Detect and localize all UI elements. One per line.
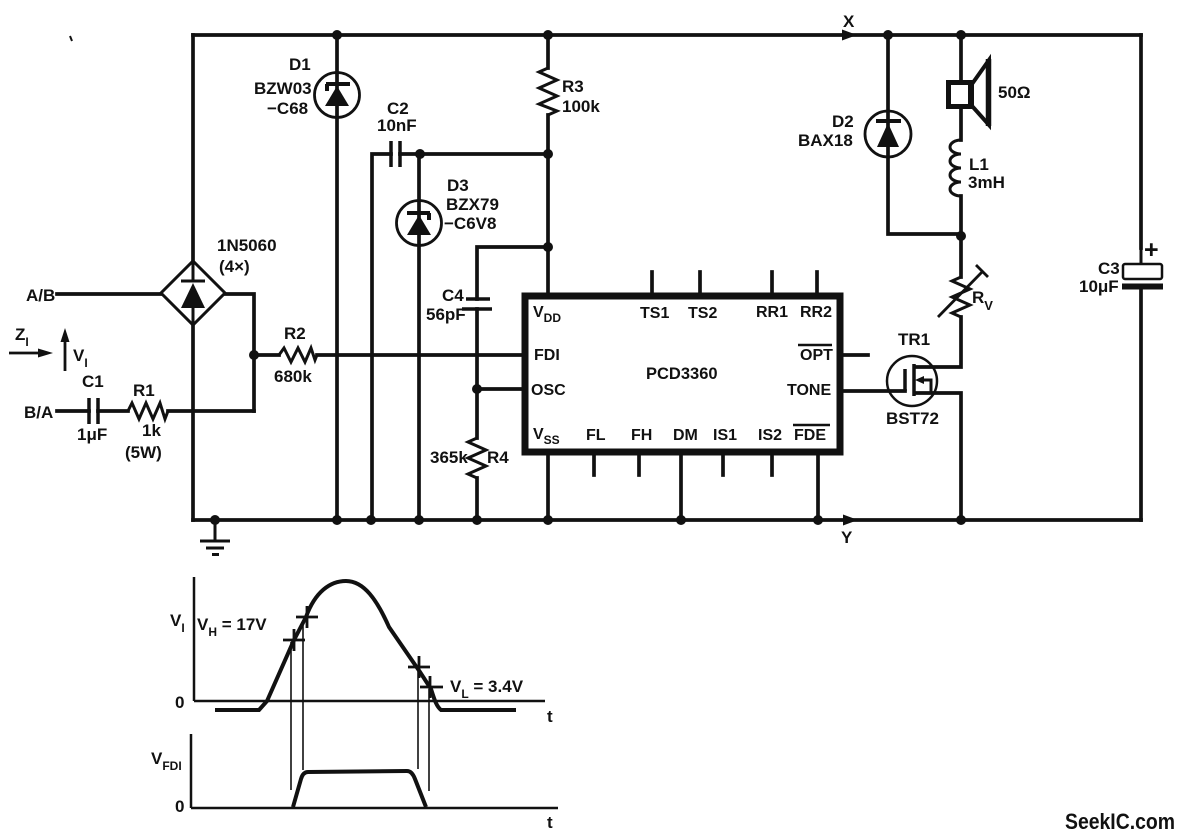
svg-text:VI: VI (73, 346, 88, 370)
svg-text:IS2: IS2 (758, 427, 782, 444)
wire OSC pin (477, 387, 523, 391)
wire source to rail (915, 393, 961, 520)
svg-text:TONE: TONE (787, 382, 831, 399)
wire speaker top (959, 35, 963, 80)
capacitor C4 (462, 299, 492, 309)
svg-text:100k: 100k (562, 97, 600, 116)
wire R2 to FDI pin (317, 353, 523, 357)
svg-text:TS2: TS2 (688, 305, 717, 322)
svg-text:D1: D1 (289, 55, 311, 74)
wire D3 branch (417, 154, 421, 520)
pin stub OPT (842, 353, 868, 357)
svg-text:ZI: ZI (15, 325, 29, 349)
wire FDE pin to rail (816, 454, 820, 520)
svg-text:(4×): (4×) (219, 257, 250, 276)
guide lines (291, 620, 429, 791)
svg-text:10nF: 10nF (377, 116, 417, 135)
wire speaker to L1 (959, 109, 963, 140)
IC pin labels (531, 304, 833, 447)
svg-text:RV: RV (972, 288, 993, 313)
svg-text:RR2: RR2 (800, 304, 832, 321)
svg-text:RR1: RR1 (756, 304, 788, 321)
pin stub RR2 (815, 272, 819, 294)
wire A/B input (57, 292, 161, 296)
FDE overline (793, 424, 830, 427)
svg-text:IS1: IS1 (713, 427, 737, 444)
wire right rail lower (1139, 289, 1143, 520)
node X arrow (842, 30, 857, 41)
svg-text:B/A: B/A (24, 403, 53, 422)
svg-text:365k: 365k (430, 448, 468, 467)
svg-text:VI: VI (170, 611, 185, 635)
waveform VFDI axes (191, 734, 558, 808)
svg-text:(5W): (5W) (125, 443, 162, 462)
capacitor C3 (1123, 264, 1162, 279)
speck top-left (70, 36, 72, 41)
cross mark 4 (420, 676, 443, 698)
wire C2 left leg (372, 154, 391, 520)
svg-text:DM: DM (673, 427, 698, 444)
svg-text:A/B: A/B (26, 286, 55, 305)
wire top rail (193, 33, 1141, 37)
wire R2 left (254, 353, 279, 357)
svg-text:−C6V8: −C6V8 (444, 214, 496, 233)
waveform VFDI pulse (293, 771, 426, 807)
wire bottom rail (193, 518, 1141, 522)
svg-text:PCD3360: PCD3360 (646, 365, 718, 383)
waveform VI curve (215, 581, 516, 710)
diode D2 BAX18 (865, 111, 911, 157)
wire TONE to gate (842, 389, 905, 393)
svg-text:VL = 3.4V: VL = 3.4V (450, 677, 524, 701)
svg-text:BAX18: BAX18 (798, 131, 853, 150)
svg-text:+: + (1144, 236, 1159, 264)
wire C2 right to R3 line (400, 152, 548, 156)
svg-text:FH: FH (631, 427, 652, 444)
svg-text:50Ω: 50Ω (998, 83, 1031, 102)
wire VSS pin to rail (546, 454, 550, 520)
cross mark 2 (296, 606, 318, 628)
svg-text:Y: Y (841, 528, 853, 547)
V_I arrow (64, 340, 67, 371)
wire RV to drain corner (915, 317, 961, 367)
waveform labels (151, 611, 553, 832)
svg-text:680k: 680k (274, 367, 312, 386)
resistor R2 (279, 348, 317, 362)
wire right rail upper (1139, 35, 1143, 248)
svg-text:R3: R3 (562, 77, 584, 96)
variable resistor RV (952, 277, 970, 317)
speaker 50ohm (949, 60, 990, 125)
pin stub IS2 (770, 454, 774, 475)
svg-text:1k: 1k (142, 421, 161, 440)
svg-text:BZX79: BZX79 (446, 195, 499, 214)
cross mark 3 (408, 656, 430, 678)
svg-text:56pF: 56pF (426, 305, 466, 324)
wire B/A input to C1 (57, 409, 89, 413)
OPT overline (798, 344, 832, 347)
cross mark 1 (283, 629, 305, 651)
svg-text:C1: C1 (82, 372, 104, 391)
pin stub TS2 (698, 272, 702, 294)
resistor R3 (539, 68, 557, 115)
wire C1 to R1 (98, 409, 128, 413)
svg-text:R4: R4 (487, 448, 509, 467)
svg-text:FL: FL (586, 427, 606, 444)
svg-text:OSC: OSC (531, 382, 566, 399)
inductor L1 (950, 140, 961, 196)
svg-text:1N5060: 1N5060 (217, 236, 277, 255)
wire bridge right vertex down (225, 294, 254, 411)
wire L1 to RV (959, 196, 963, 277)
svg-text:FDI: FDI (534, 347, 560, 364)
svg-text:TR1: TR1 (898, 330, 930, 349)
pin stub FL (592, 454, 596, 475)
wire R1 to bridge branch (168, 409, 254, 413)
wire C4 to R4 to rail (475, 309, 479, 520)
pin stub FH (637, 454, 641, 475)
svg-text:−C68: −C68 (267, 99, 308, 118)
svg-text:t: t (547, 707, 553, 726)
pin stub RR1 (770, 272, 774, 294)
capacitor C2 (391, 141, 400, 167)
svg-text:D2: D2 (832, 112, 854, 131)
svg-text:1μF: 1μF (77, 425, 107, 444)
node Y arrow (843, 515, 858, 526)
svg-text:BST72: BST72 (886, 409, 939, 428)
svg-text:BZW03: BZW03 (254, 79, 312, 98)
svg-text:3mH: 3mH (968, 173, 1005, 192)
svg-text:C4: C4 (442, 286, 464, 305)
svg-text:D3: D3 (447, 176, 469, 195)
svg-text:FDE: FDE (794, 427, 826, 444)
resistor R1 (128, 403, 168, 419)
pin stub IS1 (721, 454, 725, 475)
svg-text:SeekIC.com: SeekIC.com (1065, 809, 1175, 834)
wire D1 branch (335, 35, 339, 520)
wire DM pin to rail (679, 454, 683, 520)
Z_I arrow (9, 352, 40, 355)
diode D1 BZW03-C68 (315, 73, 360, 118)
svg-text:0: 0 (175, 797, 184, 816)
bridge rectifier 1N5060 (4x) (161, 261, 225, 325)
svg-text:C3: C3 (1098, 259, 1120, 278)
svg-text:R2: R2 (284, 324, 306, 343)
wire bridge bottom to rail (191, 325, 195, 520)
svg-text:X: X (843, 12, 855, 31)
svg-text:VH = 17V: VH = 17V (197, 615, 267, 639)
svg-text:R1: R1 (133, 381, 155, 400)
ground (200, 520, 230, 555)
pin stub TS1 (650, 272, 654, 294)
transistor TR1 BST72 mosfet (887, 356, 938, 406)
IC U1 PCD3360 (525, 296, 840, 452)
wire R3 branch (546, 35, 550, 294)
svg-text:OPT: OPT (800, 347, 833, 364)
svg-text:TS1: TS1 (640, 305, 669, 322)
diode D3 BZX79-C6V8 (397, 201, 442, 246)
resistor R4 (468, 438, 486, 478)
waveform VI axes (194, 577, 545, 701)
svg-text:10μF: 10μF (1079, 277, 1119, 296)
wire D2 branch (888, 35, 961, 234)
wire R3 tap to C4 (477, 247, 548, 299)
wire bridge top to rail (191, 35, 195, 261)
svg-text:0: 0 (175, 693, 184, 712)
svg-text:t: t (547, 813, 553, 832)
svg-text:VFDI: VFDI (151, 749, 182, 773)
svg-text:L1: L1 (969, 155, 989, 174)
capacitor C1 (89, 398, 98, 424)
